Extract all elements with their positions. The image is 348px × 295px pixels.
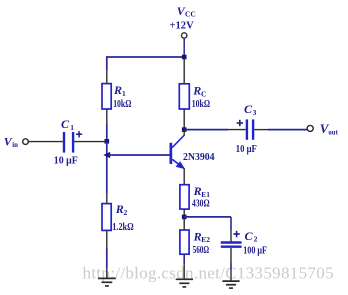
resistor R2	[102, 204, 111, 231]
label C2	[245, 229, 258, 244]
junction top rail	[182, 55, 187, 60]
label RC	[192, 84, 206, 99]
label C3	[244, 102, 257, 117]
junction input node	[105, 139, 110, 144]
wire emitter junction to RE2	[183, 217, 185, 230]
ground left	[98, 278, 116, 286]
resistor RE1	[180, 185, 189, 209]
label R1	[113, 83, 126, 98]
svg-text:2: 2	[254, 235, 258, 244]
svg-text:CC: CC	[185, 10, 196, 19]
wire VCC stem	[183, 38, 185, 56]
svg-text:C: C	[61, 117, 70, 131]
wire C2 branch down	[230, 217, 232, 230]
polarity + of C1	[76, 131, 82, 137]
svg-text:1.2kΩ: 1.2kΩ	[112, 222, 133, 233]
svg-text:http://blog.csdn.net/C13359815: http://blog.csdn.net/C13359815705	[83, 263, 334, 282]
wire C2 to ground	[230, 248, 232, 263]
svg-text:10 μF: 10 μF	[236, 144, 257, 155]
wire base horizontal	[108, 154, 170, 156]
node Vin terminal circle	[23, 139, 29, 145]
capacitor C3	[247, 119, 253, 139]
svg-text:C: C	[245, 229, 254, 243]
svg-text:E2: E2	[201, 235, 210, 244]
label R2	[115, 202, 128, 217]
svg-text:3: 3	[253, 108, 257, 117]
svg-text:C: C	[201, 90, 206, 99]
wire emitter junction to C2 branch	[184, 216, 231, 218]
wire RE2 to ground	[183, 254, 185, 264]
wire left rail lower	[106, 230, 108, 248]
resistor R1	[102, 84, 111, 109]
svg-text:2: 2	[124, 208, 128, 217]
junction emitter node	[182, 215, 187, 220]
polarity + of C2	[233, 231, 239, 237]
wire top rail horizontal	[107, 56, 184, 58]
svg-text:R: R	[192, 84, 201, 98]
svg-text:10kΩ: 10kΩ	[192, 99, 210, 110]
svg-text:100 μF: 100 μF	[243, 245, 267, 256]
wire collector node to C3	[184, 129, 228, 131]
label Vin	[4, 135, 18, 149]
wire C3 to Vout	[254, 129, 268, 131]
ground right	[222, 281, 239, 288]
capacitor C1	[64, 132, 73, 153]
label RE2	[193, 229, 211, 244]
resistor RC	[179, 84, 189, 109]
svg-text:out: out	[328, 130, 338, 137]
svg-text:in: in	[12, 142, 18, 149]
ground middle	[176, 279, 193, 287]
wire emitter to RE1	[183, 168, 185, 185]
svg-text:430Ω: 430Ω	[192, 199, 210, 210]
label Vout	[320, 121, 339, 136]
wire C1 to input node	[74, 141, 105, 143]
svg-text:+12V: +12V	[170, 21, 195, 32]
node base-wire arrow	[103, 152, 110, 158]
svg-text:10 μF: 10 μF	[54, 155, 78, 166]
junction collector node	[182, 127, 187, 132]
wire left rail between nodes	[106, 141, 108, 193]
node VCC terminal circle	[182, 33, 187, 38]
svg-text:2N3904: 2N3904	[183, 152, 215, 163]
svg-text:10kΩ: 10kΩ	[113, 99, 131, 110]
svg-text:560Ω: 560Ω	[193, 245, 210, 256]
label VCC	[177, 4, 196, 18]
wire Vin to C1	[28, 141, 62, 143]
wire RE1 to emitter junction	[183, 209, 185, 217]
svg-text:1: 1	[70, 123, 74, 132]
node Vout terminal circle	[307, 125, 313, 131]
wire RC to collector junction	[183, 109, 185, 130]
svg-text:R: R	[115, 202, 124, 216]
wire middle rail upper	[183, 57, 185, 84]
svg-text:R: R	[113, 83, 122, 97]
polarity + of C3	[237, 120, 243, 126]
wire left rail upper	[106, 56, 108, 70]
label RE1	[193, 184, 211, 199]
capacitor C2	[221, 243, 242, 247]
transistor Q1 2N3904	[170, 130, 186, 170]
label C1	[61, 117, 74, 132]
resistor RE2	[180, 230, 189, 254]
svg-text:1: 1	[122, 89, 126, 98]
wire left rail mid	[106, 109, 108, 124]
